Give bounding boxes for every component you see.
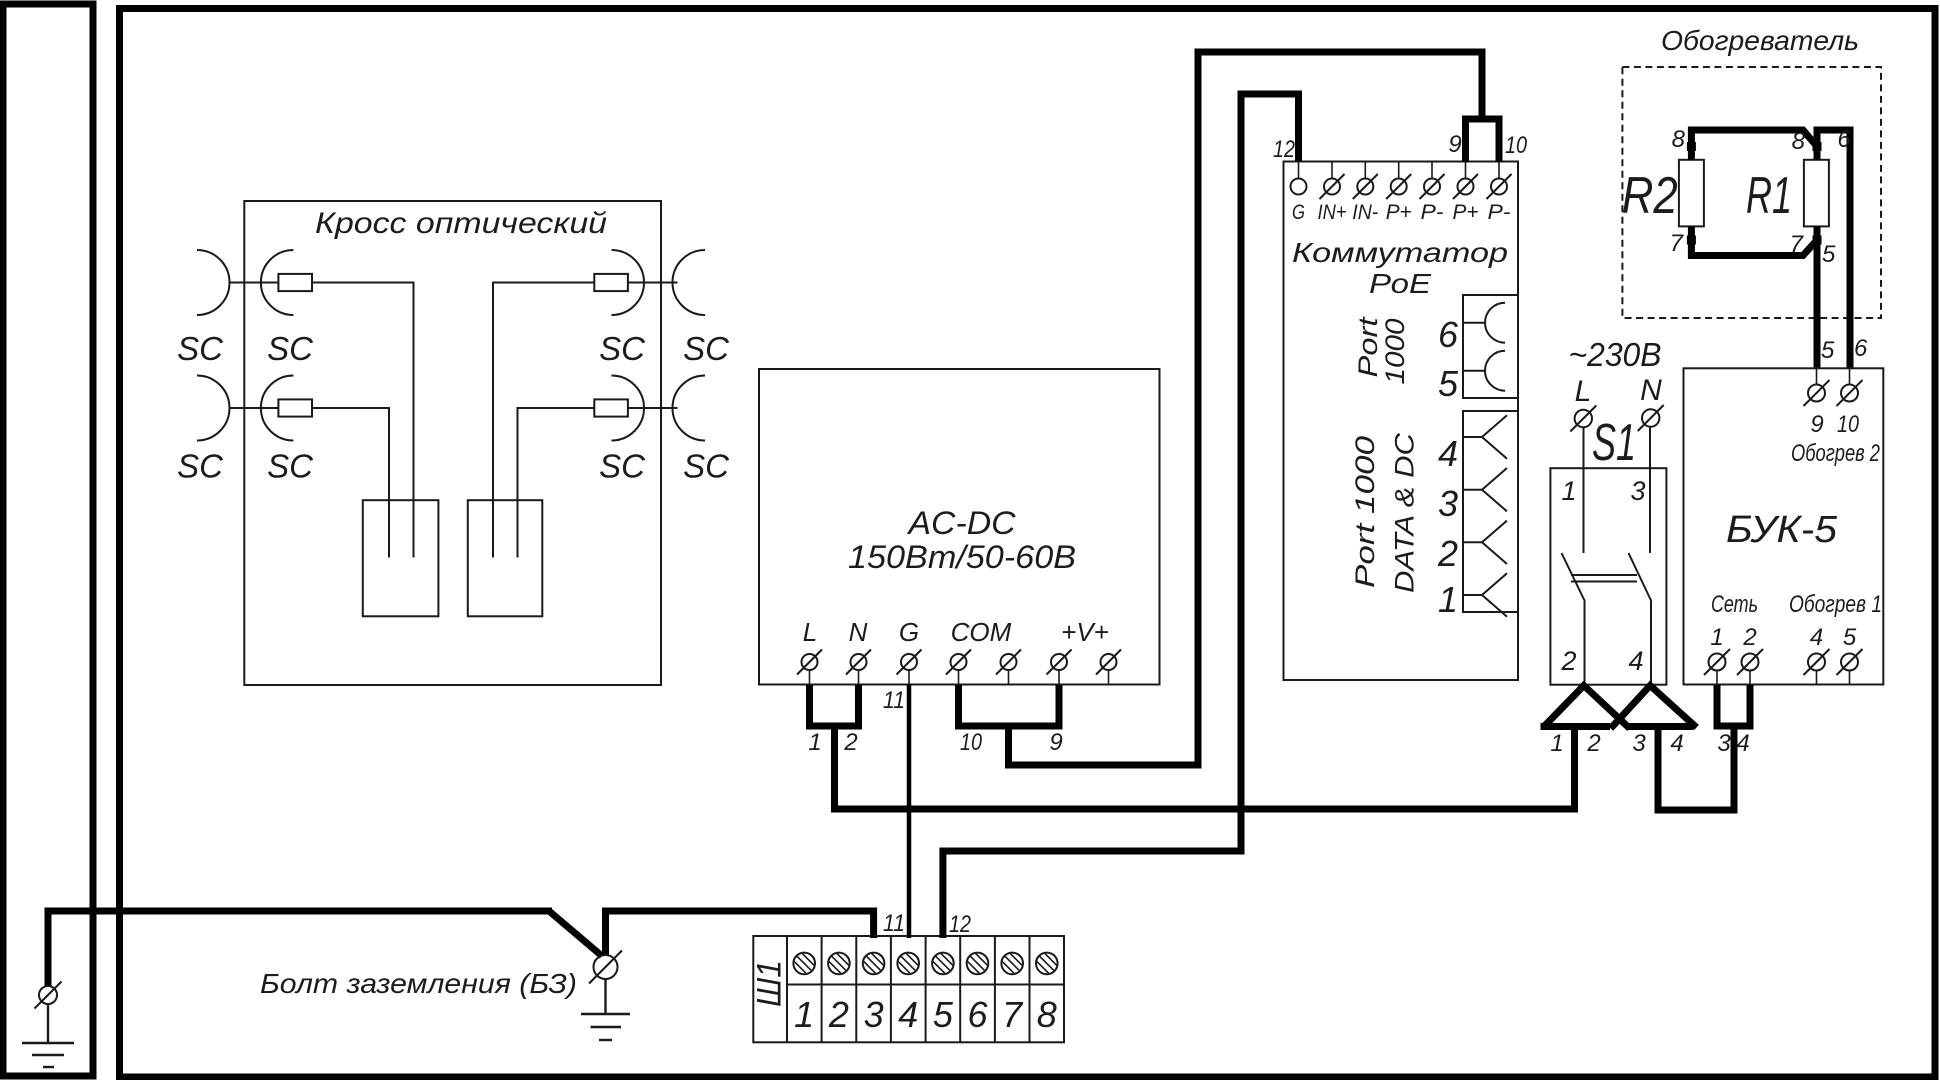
enclosure ground screw (35, 982, 62, 1009)
svg-text:6: 6 (1837, 126, 1851, 153)
svg-text:6: 6 (1854, 335, 1868, 362)
svg-text:SC: SC (267, 448, 314, 485)
svg-text:3: 3 (1630, 476, 1645, 506)
AC-DC screw terminal 5 (996, 650, 1021, 685)
svg-text:SC: SC (683, 448, 730, 485)
BUK-5 terminal 9 (1804, 368, 1830, 406)
BUK-5 bottom screw x=1750 (1737, 649, 1763, 685)
ground wire left (enclosure to bolt) (48, 911, 552, 986)
splice tray 2 (468, 500, 543, 616)
PoE data port 3 connector (1463, 468, 1507, 511)
svg-text:Болт заземления (БЗ): Болт заземления (БЗ) (260, 968, 577, 999)
svg-text:3: 3 (1717, 730, 1731, 757)
plug connector triangle pins 3-4 (1611, 686, 1697, 729)
svg-text:Обогрев 2: Обогрев 2 (1791, 440, 1880, 467)
S1 pole 2 blade (1629, 553, 1652, 602)
svg-text:IN-: IN- (1352, 201, 1378, 224)
ground wire diagonal into bolt (549, 911, 602, 956)
terminal block divider (1029, 936, 1031, 1042)
svg-text:1: 1 (1438, 579, 1458, 620)
terminal block horizontal divider (787, 984, 1064, 986)
svg-text:11: 11 (883, 910, 905, 937)
ground bolt screw (БЗ) (589, 951, 622, 984)
heater resistor R1 (1804, 160, 1829, 227)
svg-text:SC: SC (177, 448, 224, 485)
terminal screw 5 (hatched) (923, 943, 963, 983)
heater resistor R2 (1679, 160, 1704, 227)
svg-text:5: 5 (1843, 624, 1857, 651)
fiber from bottom-right SC to splice tray 2 (518, 408, 595, 558)
svg-text:11: 11 (883, 687, 905, 714)
PoE screw terminal IN+ (1320, 162, 1345, 199)
PoE data port 4 connector (1463, 415, 1507, 458)
svg-text:L: L (803, 617, 817, 647)
S1 pole 2 lower line (1650, 602, 1652, 686)
svg-text:БУК-5: БУК-5 (1726, 509, 1838, 551)
svg-text:SC: SC (599, 448, 646, 485)
supply screw N (1638, 405, 1664, 431)
svg-text:5: 5 (1438, 363, 1459, 404)
svg-text:6: 6 (1438, 314, 1459, 355)
SC connector pair top-left (197, 250, 312, 315)
svg-text:~230В: ~230В (1569, 336, 1662, 373)
PoE data port 2 connector (1463, 521, 1507, 564)
svg-text:3: 3 (1438, 483, 1458, 524)
svg-text:4: 4 (1810, 624, 1823, 651)
terminal screw 2 (hatched) (819, 943, 859, 983)
svg-text:9: 9 (1810, 411, 1823, 438)
svg-text:Обогреватель: Обогреватель (1661, 25, 1859, 56)
optical cross box (Кросс оптический) (244, 201, 661, 685)
svg-text:P+: P+ (1386, 201, 1412, 224)
svg-text:R2: R2 (1622, 167, 1678, 225)
svg-text:N: N (1640, 374, 1662, 407)
svg-text:2: 2 (843, 729, 857, 756)
terminal block divider (855, 936, 857, 1042)
svg-text:Коммутатор: Коммутатор (1292, 237, 1508, 268)
svg-text:P+: P+ (1453, 201, 1479, 224)
AC-DC screw terminal 4 (946, 650, 971, 685)
wire AC-DC DC output to PoE P+/P- (pins 9,10) (1009, 52, 1483, 765)
SC connector pair bottom-left (197, 376, 312, 441)
svg-text:7: 7 (1790, 231, 1805, 258)
svg-text:8: 8 (1672, 126, 1686, 153)
svg-text:3: 3 (864, 994, 884, 1035)
PoE Port 1000 DATA & DC block (1463, 411, 1518, 612)
S1 pole 2 fixed line (1649, 426, 1651, 553)
terminal block divider (925, 936, 927, 1042)
junction dot (1813, 236, 1822, 245)
svg-text:1: 1 (1710, 624, 1723, 651)
terminal screw 3 (hatched) (854, 943, 894, 983)
svg-text:4: 4 (1628, 646, 1643, 676)
svg-text:5: 5 (933, 994, 954, 1035)
wire R2.8 to R1.8 (top link) (1691, 130, 1817, 160)
U-link BUK-5 Сеть pins 1,2 (1717, 685, 1750, 726)
terminal block divider (786, 936, 788, 1042)
svg-text:5: 5 (1822, 241, 1836, 268)
AC-DC screw terminal 3 (897, 650, 922, 685)
terminal screw 6 (hatched) (958, 943, 998, 983)
ground wire bolt to terminal 3 (606, 911, 874, 955)
svg-text:10: 10 (960, 729, 983, 756)
svg-text:10: 10 (1837, 411, 1860, 438)
svg-text:7: 7 (1002, 994, 1024, 1035)
svg-text:+V+: +V+ (1061, 617, 1109, 647)
PoE screw terminal P- (1487, 162, 1512, 199)
svg-text:2: 2 (1437, 533, 1458, 574)
terminal block divider (821, 936, 823, 1042)
U-link PoE P+,P- pins 9,10 (1466, 119, 1500, 162)
svg-text:SC: SC (683, 330, 730, 367)
svg-text:Port 1000: Port 1000 (1350, 436, 1380, 588)
plug connector triangle pins 1-2 (1541, 686, 1630, 729)
svg-text:9: 9 (1049, 729, 1062, 756)
svg-text:G: G (899, 617, 919, 647)
enclosure left panel frame (3, 4, 93, 1076)
terminal block divider (994, 936, 996, 1042)
svg-text:Кросс оптический: Кросс оптический (315, 207, 607, 240)
svg-text:10: 10 (1505, 132, 1528, 159)
svg-text:6: 6 (967, 994, 988, 1035)
svg-text:4: 4 (1438, 433, 1458, 474)
fiber from top-right SC to splice tray 2 (493, 283, 594, 558)
svg-text:1: 1 (808, 729, 821, 756)
supply screw L (1570, 406, 1596, 432)
svg-text:DATA & DC: DATA & DC (1390, 432, 1420, 593)
BUK-5 bottom screw x=1816.5 (1804, 649, 1830, 685)
svg-text:SC: SC (599, 330, 646, 367)
svg-text:12: 12 (949, 911, 971, 938)
svg-text:P-: P- (1421, 201, 1444, 224)
wire AC-DC G (pin 11) to terminal 4 (907, 684, 912, 938)
terminal screw 4 (hatched) (888, 943, 928, 983)
svg-text:L: L (1575, 375, 1592, 408)
svg-text:SC: SC (267, 330, 314, 367)
svg-text:IN+: IN+ (1318, 201, 1347, 224)
PoE uplink port 5 connector (1463, 351, 1505, 391)
svg-text:РоЕ: РоЕ (1369, 268, 1431, 299)
U-link AC-DC terminals L,N (pins 1,2) (810, 685, 859, 726)
svg-text:Port: Port (1353, 316, 1383, 378)
wire S1 pins 3,4 to BUK-5 Сеть (1658, 727, 1734, 810)
BUK-5 terminal 10 (1837, 368, 1863, 406)
PoE screw terminal P+ (1386, 162, 1411, 199)
svg-text:4: 4 (898, 994, 918, 1035)
svg-text:2: 2 (1560, 646, 1576, 676)
svg-text:AC-DC: AC-DC (906, 505, 1016, 541)
svg-text:2: 2 (828, 994, 849, 1035)
ground bolt ground symbol (581, 980, 630, 1041)
svg-text:SC: SC (177, 330, 224, 367)
svg-text:1000: 1000 (1380, 319, 1410, 385)
wire R1.7 down to BUK pin 9 (1814, 226, 1821, 368)
svg-text:5: 5 (1821, 337, 1835, 364)
svg-text:G: G (1292, 201, 1305, 224)
AC-DC power supply box (759, 369, 1160, 685)
PoE terminal G (pin 12) (1291, 162, 1307, 195)
svg-text:Ш1: Ш1 (751, 960, 789, 1007)
svg-text:2: 2 (1586, 730, 1600, 757)
S1 pole 1 blade (1562, 553, 1586, 602)
svg-text:Сеть: Сеть (1711, 591, 1758, 618)
terminal screw 7 (hatched) (992, 943, 1032, 983)
svg-text:1: 1 (794, 994, 814, 1035)
svg-text:R1: R1 (1746, 167, 1792, 225)
svg-text:2: 2 (1742, 624, 1756, 651)
svg-text:S1: S1 (1592, 414, 1636, 472)
svg-text:Обогрев 1: Обогрев 1 (1789, 591, 1882, 618)
svg-text:9: 9 (1448, 131, 1461, 158)
wire R2.7 to R1.7 (bottom link) (1691, 226, 1817, 255)
fiber from bottom-left SC to splice tray 1 (312, 408, 389, 558)
AC-DC screw terminal 6 (1047, 650, 1072, 685)
PoE switch box (Коммутатор PoE) (1284, 162, 1519, 681)
svg-text:COM: COM (951, 617, 1012, 647)
S1 pole 1 fixed line (1583, 427, 1585, 553)
terminal block divider (890, 936, 892, 1042)
svg-text:N: N (849, 617, 868, 647)
breaker S1 box (1550, 468, 1666, 685)
BUK-5 bottom screw x=1717 (1704, 649, 1730, 685)
BUK-5 bottom screw x=1849.5 (1837, 649, 1863, 685)
S1 tie bar (1571, 575, 1637, 582)
svg-text:P-: P- (1488, 201, 1511, 224)
junction dot (1813, 142, 1822, 151)
BUK-5 controller box (1684, 368, 1884, 684)
splice tray 1 (363, 500, 439, 616)
svg-text:8: 8 (1037, 994, 1057, 1035)
SC connector pair top-right (594, 250, 705, 315)
PoE uplink Port 1000 block (1463, 295, 1518, 398)
svg-text:4: 4 (1670, 730, 1683, 757)
svg-text:12: 12 (1273, 136, 1295, 163)
svg-text:1: 1 (1561, 476, 1576, 506)
terminal screw 8 (hatched) (1027, 943, 1067, 983)
terminal screw 1 (hatched) (784, 943, 824, 983)
svg-text:1: 1 (1550, 730, 1563, 757)
terminal block divider (959, 936, 961, 1042)
AC-DC screw terminal 7 (1096, 650, 1121, 685)
AC-DC screw terminal 2 (846, 650, 871, 685)
SC connector pair bottom-right (594, 376, 705, 441)
wire AC-DC L,N to S1 pins 1,2 (835, 726, 1575, 809)
U-link AC-DC terminals COM,+V (pins 10,9) (959, 685, 1060, 726)
svg-text:3: 3 (1632, 730, 1646, 757)
enclosure ground symbol (22, 1004, 74, 1067)
wire PoE G (pin 12) to terminal 5 (943, 94, 1299, 938)
PoE uplink port 6 connector (1463, 303, 1505, 343)
S1 pole 1 lower line (1584, 602, 1586, 686)
junction dot (1687, 142, 1696, 151)
svg-text:150Вт/50-60В: 150Вт/50-60В (848, 539, 1076, 575)
PoE screw terminal P+ (1453, 162, 1478, 199)
fiber from top-left SC to splice tray 1 (312, 283, 414, 558)
svg-text:4: 4 (1736, 730, 1749, 757)
terminal block Ш1 outline (753, 936, 1064, 1042)
PoE data port 1 connector (1463, 573, 1507, 616)
PoE screw terminal IN- (1353, 162, 1378, 199)
heater dashed enclosure (1622, 67, 1881, 318)
junction dot (1687, 236, 1696, 245)
wire R1.8 up to pin 6 drop (1817, 130, 1850, 368)
PoE screw terminal P- (1420, 162, 1445, 199)
svg-text:8: 8 (1792, 128, 1806, 155)
AC-DC screw terminal 1 (797, 650, 822, 685)
svg-text:7: 7 (1670, 230, 1685, 257)
